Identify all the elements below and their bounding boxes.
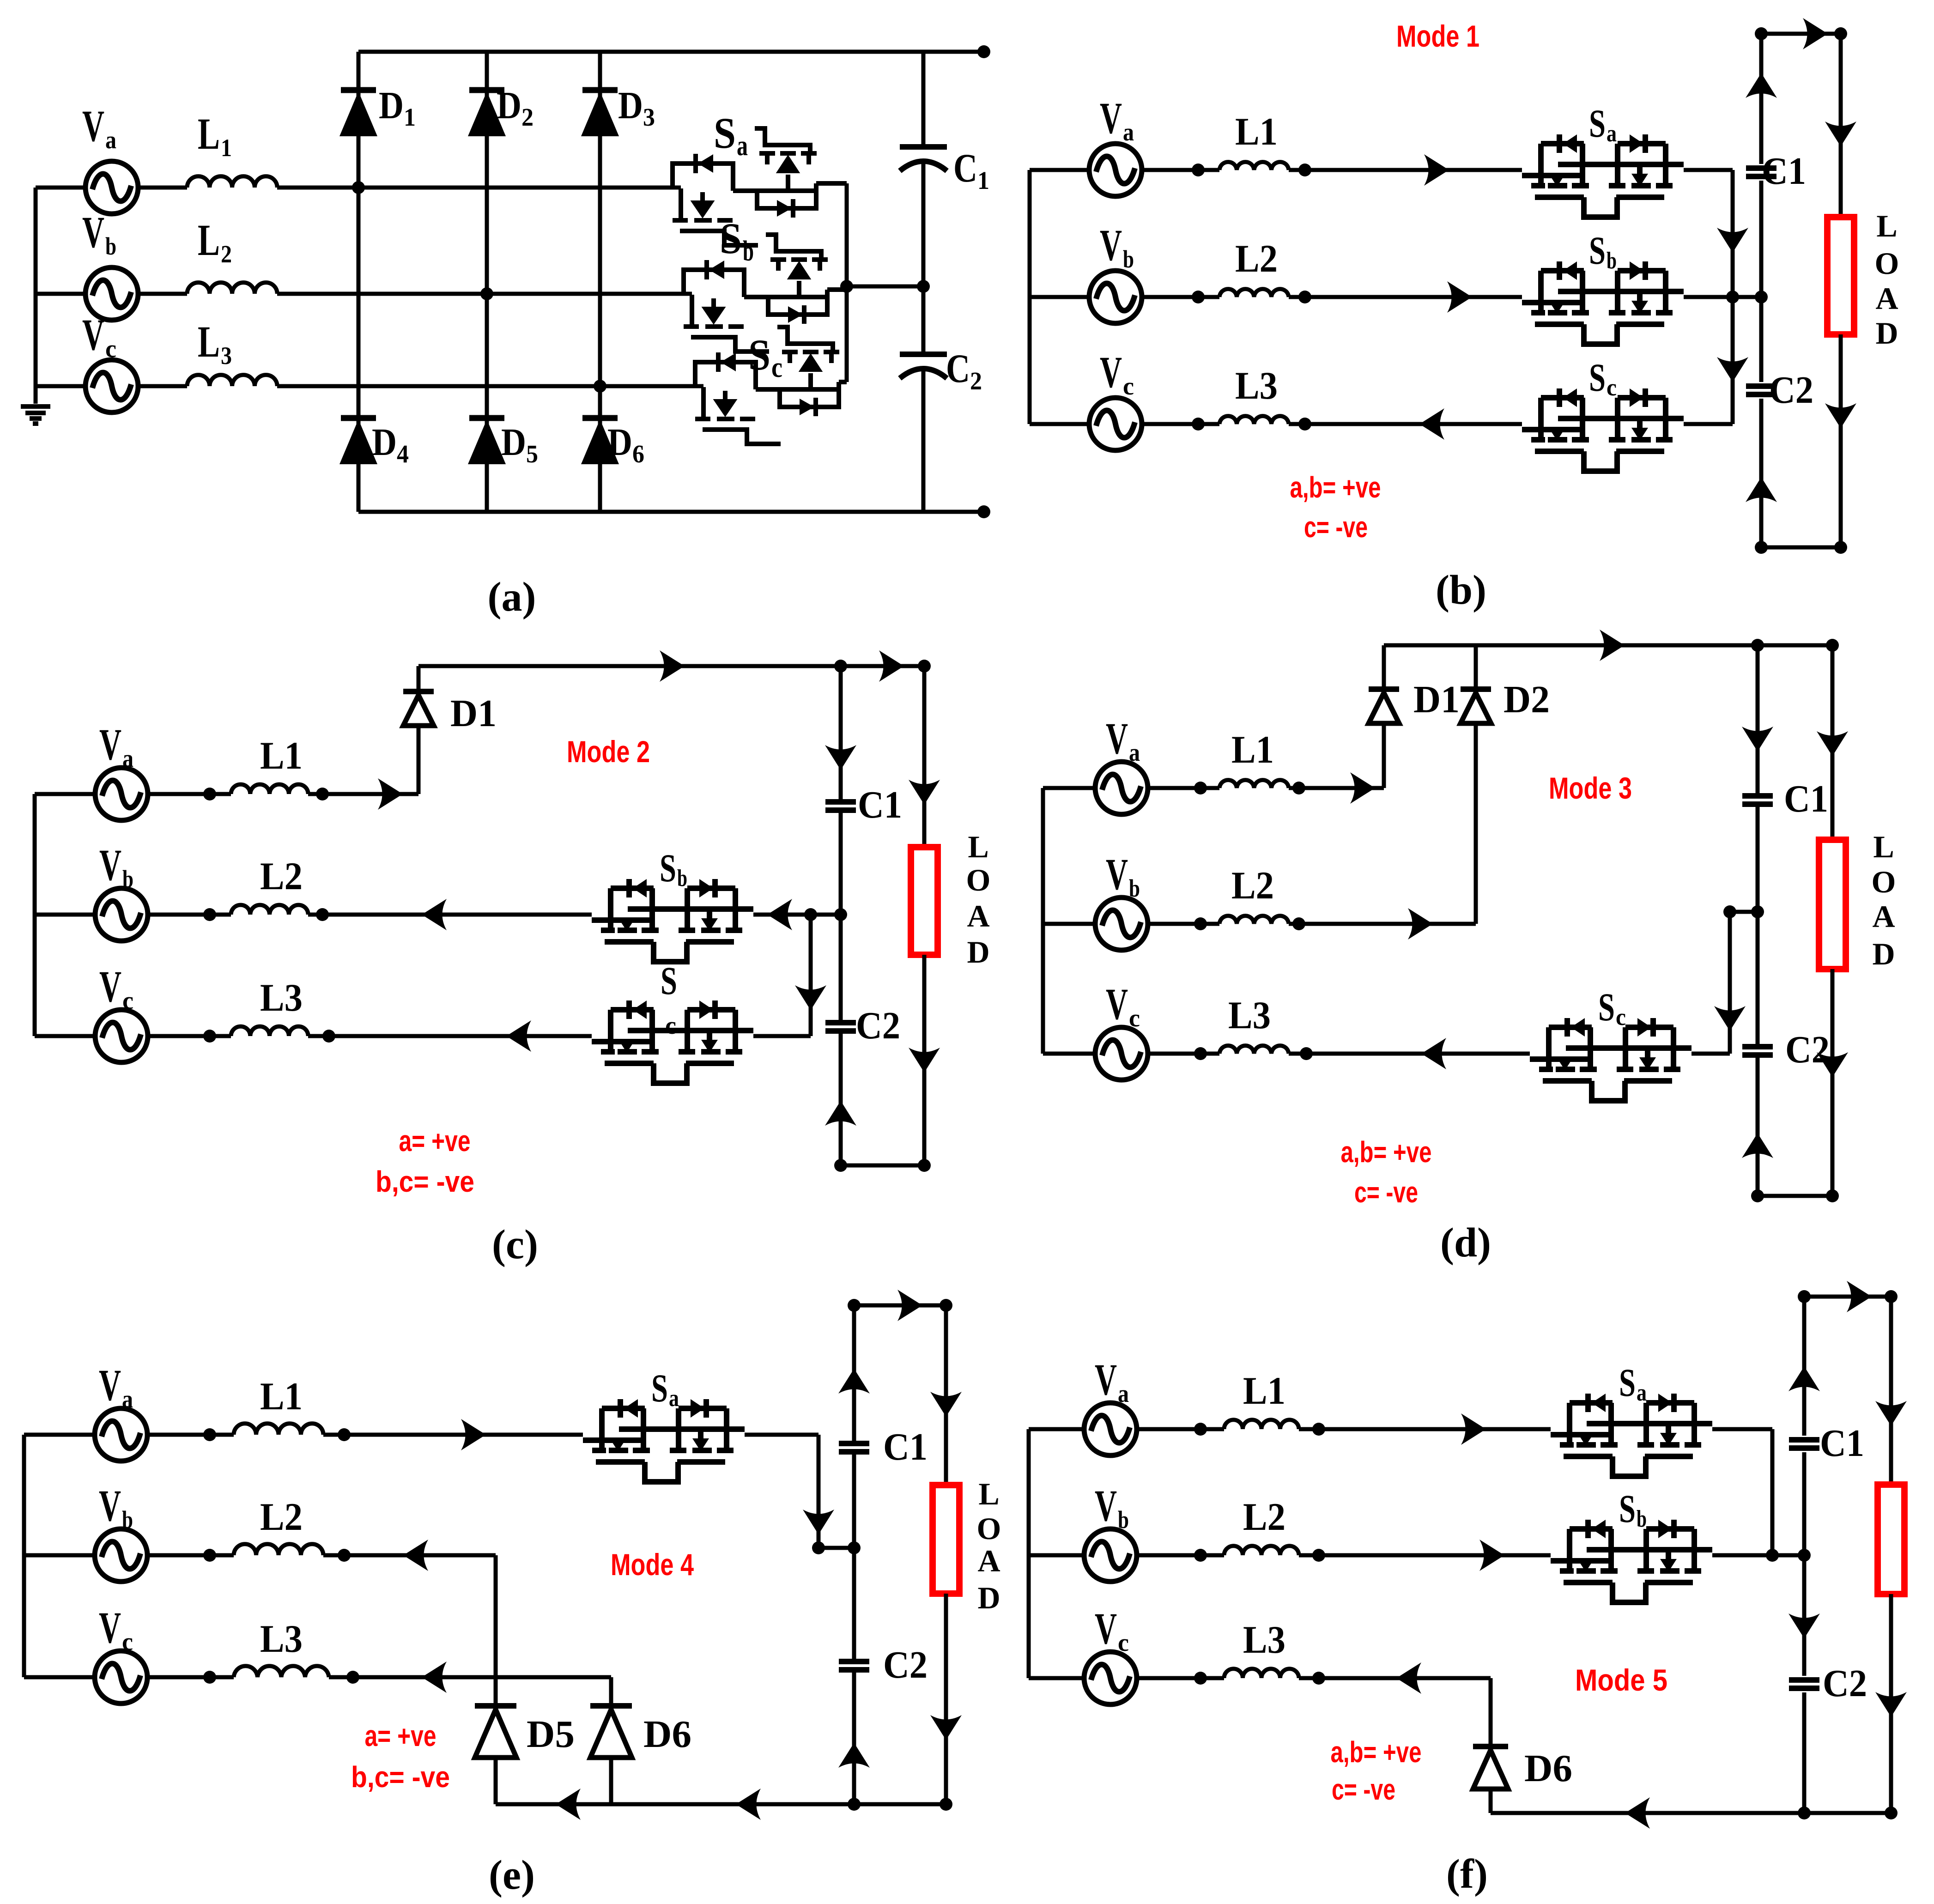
svg-text:D6: D6: [643, 1713, 691, 1756]
wire row a: Va to L1: [147, 1433, 234, 1437]
svg-text:b: b: [1129, 874, 1140, 902]
svg-text:S: S: [720, 214, 742, 263]
svg-text:Mode 1: Mode 1: [1396, 19, 1479, 53]
wire: cap branch upper: [839, 666, 843, 802]
wire row a: Va to L1: [1142, 168, 1219, 172]
inductor L2 (panel a): [187, 283, 277, 294]
wire: cap branch lower: [1756, 1055, 1760, 1196]
voltage source Vc (panel d): [1095, 1027, 1148, 1080]
current arrow out of load: [930, 1715, 962, 1740]
voltage source Vb (panel e): [95, 1529, 147, 1582]
current arrow row a: [378, 778, 403, 810]
wire: Sc to riser: [1691, 1052, 1730, 1056]
svg-text:(e): (e): [489, 1852, 535, 1898]
svg-text:a: a: [1123, 118, 1134, 146]
wire row a: Va to L1: [148, 792, 231, 796]
wire: corner drop: [1770, 1429, 1775, 1555]
wire: Sa drop bus: [1731, 170, 1735, 424]
inductor L2 (panel c): [231, 905, 308, 915]
load resistor (panel f): [1878, 1485, 1904, 1594]
svg-text:S: S: [651, 1366, 668, 1410]
current arrow into load: [1825, 121, 1856, 146]
svg-text:c: c: [1607, 375, 1617, 401]
wire: D1 leg lower: [417, 728, 421, 794]
svg-text:c: c: [122, 987, 133, 1014]
current arrow row b (leftward): [422, 899, 447, 930]
inductor L1 (panel b): [1219, 162, 1289, 170]
wire: D6 leg upper: [609, 1677, 613, 1706]
svg-text:3: 3: [221, 342, 232, 370]
svg-text:C1: C1: [858, 783, 902, 826]
wire: D1 leg upper: [1382, 645, 1386, 689]
junction row c right: [1300, 1047, 1313, 1060]
svg-text:b: b: [1637, 1506, 1647, 1532]
svg-text:V: V: [1095, 1481, 1117, 1530]
wire: riser to node: [1728, 912, 1732, 1054]
svg-text:L3: L3: [260, 1617, 303, 1661]
current arrow into Sb: [767, 899, 792, 930]
svg-text:L: L: [978, 1476, 999, 1511]
junction row b right: [338, 1549, 351, 1562]
junction row b right: [1298, 291, 1311, 303]
svg-text:C1: C1: [883, 1425, 928, 1468]
svg-text:(a): (a): [488, 574, 536, 620]
svg-text:L: L: [198, 109, 220, 158]
current arrow row b: [1479, 1540, 1504, 1571]
load resistor (panel e): [933, 1485, 959, 1594]
capacitor C1 (panel e): [839, 1443, 869, 1452]
wire: cap branch upper: [1756, 645, 1760, 796]
svg-text:S: S: [714, 109, 736, 158]
svg-text:a: a: [737, 130, 748, 162]
svg-text:V: V: [82, 101, 104, 151]
svg-text:S: S: [661, 958, 677, 1003]
svg-text:b: b: [743, 236, 754, 267]
current arrow up to C2: [1746, 477, 1777, 502]
svg-text:D1: D1: [450, 692, 497, 735]
junction row c left: [1194, 1672, 1207, 1685]
svg-text:V: V: [99, 720, 121, 769]
voltage source Va (panel f): [1084, 1403, 1137, 1455]
capacitor C2 (panel a): [900, 354, 947, 378]
svg-text:C2: C2: [856, 1004, 900, 1047]
load resistor (panel b): [1827, 217, 1854, 334]
svg-text:L2: L2: [1235, 237, 1278, 280]
switch Sb (bidirectional MOSFET pair): [684, 235, 847, 352]
wire: cap branch upper: [1802, 1297, 1807, 1436]
svg-text:A: A: [977, 1543, 1000, 1578]
junction row c left: [203, 1030, 216, 1043]
switch Sa (panel f): [1551, 1394, 1712, 1476]
svg-text:C: C: [953, 146, 977, 191]
svg-text:c: c: [1123, 372, 1134, 400]
node top cap branch: [848, 1299, 861, 1312]
wire: cap branch lower: [1802, 1692, 1807, 1813]
svg-text:c: c: [105, 335, 116, 363]
voltage source Vc (panel a): [85, 360, 138, 412]
current arrow down to C2: [1788, 1613, 1820, 1638]
svg-text:b: b: [122, 1506, 133, 1534]
svg-text:2: 2: [521, 103, 534, 131]
wire row c: Vc to L3: [1148, 1052, 1219, 1056]
inductor L2 (panel f): [1224, 1546, 1299, 1555]
wire: load branch upper: [1831, 645, 1835, 840]
svg-text:2: 2: [970, 367, 982, 395]
switch Sb (panel f): [1551, 1520, 1712, 1602]
junction row c left: [203, 1671, 216, 1684]
wire: cap branch lower: [839, 1031, 843, 1165]
current arrow up cap branch: [838, 1369, 870, 1394]
wire row c: L3 to switch Sc: [277, 384, 703, 388]
svg-text:C: C: [946, 346, 970, 391]
svg-text:Mode 3: Mode 3: [1549, 771, 1632, 805]
node: capacitor midpoint: [917, 280, 930, 293]
current arrow top link: [1803, 18, 1828, 49]
wire: load branch lower: [1831, 969, 1835, 1196]
current arrow down to node: [803, 1510, 834, 1534]
svg-text:5: 5: [526, 440, 538, 468]
current arrow into load: [909, 780, 940, 805]
current arrow row a: [1350, 772, 1375, 804]
node bottom cap branch: [1798, 1807, 1811, 1819]
wire: bottom link: [1761, 546, 1841, 550]
svg-text:C1: C1: [1762, 150, 1806, 193]
wire: Sa to corner: [1712, 1427, 1772, 1431]
svg-text:S: S: [748, 330, 770, 379]
wire row b: Vb to L2: [138, 292, 187, 296]
voltage source Vc (panel f): [1084, 1652, 1137, 1704]
wire row a: bus to Va: [1043, 786, 1095, 790]
wire row a: Va to L1: [138, 186, 187, 190]
wire: cap branch mid: [839, 810, 843, 1023]
svg-text:L: L: [198, 317, 220, 366]
capacitor C1 (panel b): [1746, 168, 1776, 176]
svg-text:L3: L3: [260, 976, 303, 1019]
svg-text:a: a: [105, 126, 116, 154]
junction row b right: [1312, 1549, 1325, 1562]
svg-text:A: A: [1872, 899, 1895, 934]
current arrow down to Sc: [795, 985, 826, 1010]
wire row c: bus to Vc: [36, 384, 86, 388]
wire row a: L1 to D1 corner: [1289, 786, 1384, 790]
wire: D6 leg lower: [609, 1758, 613, 1804]
svg-text:a: a: [122, 1385, 133, 1413]
node: dc- terminal: [977, 505, 990, 518]
wire row c: bus to Vc: [1029, 1676, 1084, 1680]
wire row b: Vb to L2: [1137, 1553, 1224, 1558]
svg-text:V: V: [99, 1360, 121, 1410]
svg-text:D: D: [607, 421, 632, 464]
current arrow into load: [1817, 731, 1848, 756]
switch Sa (panel e): [583, 1399, 745, 1482]
junction row a right: [338, 1428, 351, 1441]
node: Sa drop / row b: [1766, 1549, 1779, 1562]
node top cap branch: [1798, 1290, 1811, 1303]
wire: top link: [1761, 32, 1841, 36]
node bottom load branch: [918, 1159, 931, 1172]
current arrow row c (leftward): [506, 1020, 531, 1052]
svg-text:V: V: [99, 840, 121, 890]
svg-text:D: D: [497, 84, 521, 127]
node top load branch: [918, 660, 931, 673]
svg-text:C1: C1: [1820, 1422, 1864, 1465]
node bottom cap branch: [1755, 541, 1768, 554]
svg-text:A: A: [967, 898, 989, 934]
voltage source Va (panel b): [1089, 144, 1142, 196]
current arrow into load: [930, 1392, 962, 1417]
junction row a left: [1194, 1423, 1207, 1436]
svg-text:D: D: [618, 84, 643, 127]
switch Sc (panel c): [592, 1001, 753, 1083]
inductor L3 (panel e): [234, 1666, 329, 1677]
junction row a right: [1312, 1423, 1325, 1436]
wire: load branch lower: [1889, 1594, 1893, 1813]
current arrow up cap branch: [1746, 73, 1777, 98]
wire: panel c left bus: [33, 794, 37, 1036]
wire: load branch upper: [922, 666, 927, 847]
wire: cap branch upper: [852, 1305, 856, 1443]
junction row c right: [322, 1030, 335, 1043]
svg-text:V: V: [1100, 93, 1122, 143]
svg-text:S: S: [1589, 101, 1606, 146]
wire: midpoint link: [847, 285, 923, 289]
junction row b left: [1192, 291, 1205, 303]
wire: panel d left bus: [1041, 788, 1045, 1054]
svg-text:S: S: [660, 846, 676, 890]
svg-text:L1: L1: [260, 1375, 303, 1418]
junction row b left: [1194, 917, 1207, 930]
wire: cap branch upper: [1759, 34, 1764, 164]
wire: top line: [418, 664, 924, 668]
capacitor C1 (panel d): [1742, 796, 1773, 804]
svg-text:L3: L3: [1243, 1618, 1285, 1661]
voltage source Vb (panel a): [85, 267, 138, 320]
svg-text:4: 4: [397, 440, 409, 468]
svg-text:D: D: [372, 421, 397, 464]
current arrow row b: [1408, 908, 1433, 940]
svg-text:b,c= -ve: b,c= -ve: [376, 1165, 474, 1198]
svg-text:L1: L1: [260, 734, 303, 777]
diode D2 (panel d): [1461, 689, 1491, 723]
wire row a: L1 to D1 corner: [308, 792, 418, 796]
svg-text:c: c: [1129, 1004, 1140, 1032]
svg-text:V: V: [1100, 220, 1122, 270]
voltage source Va (panel e): [95, 1408, 147, 1461]
svg-text:A: A: [1875, 281, 1898, 316]
svg-text:3: 3: [643, 103, 655, 131]
inductor L3 (panel b): [1219, 416, 1289, 424]
switch Sb (panel b): [1522, 261, 1684, 344]
ground: [21, 406, 50, 424]
current arrow down to node: [1717, 228, 1748, 253]
diode D3: [582, 90, 618, 135]
current arrow row b: [1447, 281, 1472, 313]
voltage source Vb (panel c): [95, 888, 148, 941]
wire row c: L3 to Sc: [1289, 422, 1522, 426]
wire row a: L1 to Sa: [323, 1433, 583, 1437]
node bottom cap branch: [834, 1159, 847, 1172]
node: riser / midpoint link: [1723, 905, 1736, 918]
svg-text:a: a: [669, 1385, 679, 1412]
voltage source Vb (panel f): [1084, 1529, 1137, 1582]
svg-text:D1: D1: [1413, 678, 1460, 721]
svg-text:a: a: [1637, 1380, 1647, 1406]
svg-text:D: D: [1875, 315, 1898, 351]
junction row a right: [1292, 782, 1305, 794]
node top cap branch: [1751, 639, 1764, 652]
wire row b: bus to Vb: [36, 292, 86, 296]
node: phase c / D3 leg: [594, 380, 606, 393]
svg-text:O: O: [977, 1511, 1001, 1546]
current arrow bottom line: [556, 1789, 581, 1820]
svg-text:S: S: [1619, 1486, 1636, 1531]
node top load branch: [1826, 639, 1839, 652]
svg-text:L1: L1: [1243, 1369, 1285, 1413]
wire: D2 leg lower: [1474, 725, 1478, 924]
wire row a: L1 to Sa: [1289, 168, 1522, 172]
inductor L2 (panel d): [1219, 916, 1289, 924]
svg-text:V: V: [99, 962, 121, 1011]
svg-text:D: D: [1872, 936, 1895, 971]
current arrow bottom line 2: [736, 1789, 761, 1820]
switch Sc (bidirectional MOSFET pair): [695, 327, 847, 444]
capacitor C2 (panel e): [839, 1661, 869, 1670]
wire: Sb to cap branch: [1712, 1553, 1804, 1558]
svg-text:(d): (d): [1440, 1220, 1491, 1266]
wire row b: Vb to L2: [148, 913, 231, 917]
svg-text:b,c= -ve: b,c= -ve: [351, 1760, 450, 1794]
current arrow down riser: [1714, 1006, 1746, 1031]
current arrow top line: [1600, 630, 1625, 661]
node bottom cap branch: [848, 1798, 861, 1811]
wire: D6 leg lower: [1489, 1788, 1493, 1813]
svg-text:V: V: [99, 1481, 121, 1530]
svg-text:D: D: [967, 934, 989, 970]
wire row b: L2 to Sb: [1299, 1553, 1551, 1558]
svg-text:1: 1: [221, 134, 232, 162]
junction row a left: [1194, 782, 1207, 794]
wire: load branch upper: [1889, 1297, 1893, 1485]
svg-text:D: D: [977, 1580, 1000, 1615]
wire: bottom link: [841, 1164, 924, 1168]
current arrow top line: [660, 650, 685, 682]
svg-text:a= +ve: a= +ve: [399, 1124, 471, 1158]
capacitor C2 (panel d): [1742, 1047, 1773, 1055]
svg-text:L3: L3: [1235, 364, 1278, 407]
current arrow down cap branch: [1742, 727, 1773, 752]
voltage source Vc (panel b): [1089, 398, 1142, 450]
wire: midpoint link: [1730, 910, 1758, 914]
inductor L2 (panel b): [1219, 289, 1289, 297]
svg-text:Mode 2: Mode 2: [567, 734, 650, 769]
svg-text:V: V: [82, 207, 104, 257]
wire: load branch lower: [944, 1594, 948, 1804]
wire: drop to Sc: [809, 915, 813, 1036]
junction row a left: [1192, 164, 1205, 176]
wire: top dc bus: [358, 50, 984, 54]
svg-text:V: V: [1106, 714, 1128, 763]
diode D1 (panel d): [1369, 689, 1399, 723]
diode D1 (panel c): [403, 691, 434, 726]
wire row c: bus to Vc: [1030, 422, 1089, 426]
node top cap branch: [1755, 27, 1768, 40]
wire: D1/D4 leg: [357, 52, 361, 512]
junction row c right: [346, 1671, 359, 1684]
node bottom cap branch: [1751, 1189, 1764, 1202]
node: capacitor midpoint (panel b): [1755, 291, 1768, 303]
load resistor (panel d): [1819, 840, 1846, 969]
wire row c: L3 to D6 corner: [329, 1675, 611, 1680]
capacitor C2 (panel f): [1789, 1680, 1819, 1688]
node: phase b / D2 leg: [480, 287, 493, 300]
svg-text:D2: D2: [1504, 678, 1550, 721]
svg-text:L3: L3: [1228, 994, 1271, 1037]
node bottom load branch: [1834, 541, 1847, 554]
voltage source Va (panel a): [85, 161, 138, 214]
current arrow row c (leftward): [1419, 408, 1444, 440]
node: capacitor midpoint (panel c): [834, 908, 847, 921]
wire: capacitor leg upper: [922, 52, 926, 147]
wire: D5 leg lower: [494, 1758, 498, 1804]
wire: panel f left bus: [1027, 1429, 1031, 1678]
svg-text:O: O: [1875, 246, 1899, 281]
svg-text:6: 6: [632, 440, 644, 468]
wire: top link: [1804, 1295, 1891, 1299]
node: capacitor midpoint (panel f): [1798, 1549, 1811, 1562]
wire: D1 leg lower: [1382, 725, 1386, 788]
wire: panel a left bus: [34, 188, 38, 404]
current arrow up from bottom: [838, 1743, 870, 1768]
wire: capacitor leg middle: [922, 163, 926, 354]
node: phase a / D1 leg: [352, 181, 365, 194]
svg-text:2: 2: [221, 240, 232, 268]
current arrow up cap branch: [1788, 1366, 1820, 1391]
capacitor C2 (panel c): [825, 1023, 856, 1031]
junction row b left: [203, 1549, 216, 1562]
wire: corner drop: [817, 1435, 821, 1548]
wire row b: bus to Vb: [1030, 295, 1089, 299]
current arrow down cap branch: [825, 745, 856, 770]
wire: Sc to Sa bus: [1684, 422, 1733, 426]
svg-text:O: O: [966, 862, 991, 897]
wire row c: Vc to L3: [138, 384, 187, 388]
svg-text:Mode 4: Mode 4: [611, 1547, 694, 1582]
inductor L1 (panel e): [234, 1424, 323, 1435]
junction row b right: [316, 908, 329, 921]
node top load branch: [940, 1299, 952, 1312]
node bottom load branch: [1826, 1189, 1839, 1202]
svg-text:C2: C2: [1823, 1662, 1867, 1705]
voltage source Vc (panel c): [95, 1010, 148, 1062]
junction row a left: [203, 788, 216, 800]
svg-text:S: S: [1589, 228, 1606, 273]
current arrow up to C2: [1742, 1133, 1773, 1158]
node: dc+ terminal: [977, 45, 990, 58]
svg-text:L2: L2: [1243, 1495, 1285, 1539]
diode D5 (panel e): [475, 1706, 516, 1758]
svg-text:O: O: [1872, 864, 1896, 899]
switch Sc (panel b): [1522, 388, 1684, 471]
capacitor C1 (panel a): [900, 147, 947, 171]
wire: panel b left bus: [1028, 170, 1032, 424]
voltage source Vc (panel e): [95, 1651, 147, 1704]
wire row b: L2 to Sb: [1289, 295, 1522, 299]
wire row c: Vc to L3: [147, 1675, 234, 1680]
junction row c left: [1192, 418, 1205, 431]
wire: cap branch mid: [1756, 804, 1760, 1047]
voltage source Vb (panel d): [1095, 897, 1148, 950]
wire: top link: [854, 1304, 946, 1308]
